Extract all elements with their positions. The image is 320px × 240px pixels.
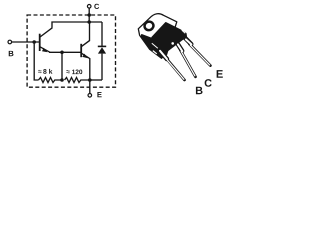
tab underside shadow wedge [141,34,167,58]
lead B (pin) [160,51,167,59]
tab mounting hole [143,20,155,32]
node: dot at box border on C wire [87,13,91,17]
dashed package boundary box [27,15,115,87]
TO-220 package tab [138,14,177,55]
package label B [196,87,203,94]
body mold mark dot [171,42,174,45]
wire: left vertical from B junction to bottom rail [34,42,38,80]
label C [94,4,99,9]
Q2 emitter lead [81,53,89,80]
Q1 emitter arrow [42,48,48,53]
package label E [217,70,223,78]
D1 top lead [101,22,103,47]
wire: B terminal to Q1 base [12,41,40,43]
terminal C [87,5,91,9]
transistor Q1 [40,28,53,53]
lead C (pin) [177,43,182,51]
TO-220 leads [160,37,210,80]
D1 bottom lead [101,54,103,80]
terminal B [8,40,12,44]
wire: Q1 emitter to Q2 base [49,51,81,53]
wire: collector rail [52,22,102,28]
terminal E [88,94,92,98]
label R2 value [66,70,69,72]
wire: E junction down to E terminal [89,80,91,93]
diode D1 (emitter-collector) [98,22,106,80]
lead E (pin) [185,37,192,44]
resistor R2 120 zigzag [65,78,90,83]
TO-220 body [152,23,186,55]
wire: bottom rail right segment to diode [90,79,102,81]
Q1 base bar [39,34,41,51]
Q2 collector lead [81,22,89,47]
node: E junction dot [88,78,92,82]
node: dot on emitter-base wire [60,51,64,55]
wire: C terminal down to collector rail [88,8,90,22]
node: B junction dot [32,40,36,44]
body corner chamfer highlight [182,30,185,33]
tab edge highlight sliver lower [153,51,157,54]
tab edge highlight sliver upper [152,43,158,48]
Q2 emitter arrow [82,54,88,59]
D1 triangle [98,47,106,53]
node: dot between resistors [60,78,64,82]
resistor R1 8k zigzag [39,78,63,83]
label E [97,92,101,97]
Q1 emitter lead [40,47,50,53]
node: dot at collector rail [87,20,91,24]
label B [9,51,14,56]
label R1 value [38,70,41,73]
wire: vertical between E1B2 node and bottom rail [61,52,63,80]
D1 cathode bar [98,45,106,47]
Q1 collector lead [40,28,52,37]
Q2 base bar [80,44,82,57]
package label C [205,79,212,87]
transistor Q2 [81,22,90,80]
